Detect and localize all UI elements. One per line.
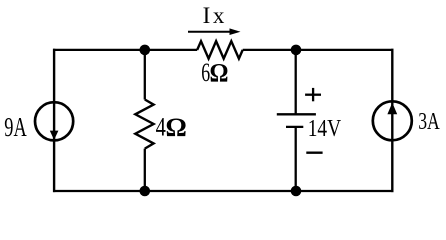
battery V1 bottom plate (short) bbox=[286, 126, 303, 128]
plus sign of battery bbox=[305, 94, 321, 96]
wire: bottom rail bbox=[53, 190, 394, 192]
svg-text:Ω: Ω bbox=[166, 112, 187, 142]
minus sign of battery bbox=[306, 152, 322, 154]
wire: right rail (through 3A source) bbox=[391, 49, 393, 192]
node B (top, junction of 6ohm / battery / 3A) bbox=[291, 45, 302, 56]
battery V1 top plate (long) bbox=[277, 113, 316, 115]
resistor R2 6ohm (horizontal zigzag on top rail) bbox=[197, 41, 243, 58]
wire: top rail left segment (corner to 6ohm) bbox=[53, 49, 197, 51]
wire: battery branch upper segment bbox=[295, 50, 297, 114]
svg-text:3A: 3A bbox=[418, 108, 440, 135]
arrowhead of 3A source (pointing up) bbox=[387, 103, 397, 115]
node C (bottom left junction) bbox=[140, 186, 151, 197]
wire: left rail (through 9A source) bbox=[53, 49, 55, 192]
svg-text:14V: 14V bbox=[308, 115, 342, 142]
arrow for Ix (pointing right) bbox=[188, 31, 233, 33]
node D (bottom right junction) bbox=[291, 186, 302, 197]
current source I1 9A (circle) bbox=[35, 102, 73, 140]
svg-text:9A: 9A bbox=[4, 112, 27, 142]
arrowhead of 9A source (pointing down) bbox=[50, 131, 59, 140]
svg-text:Ix: Ix bbox=[203, 3, 227, 28]
wire: battery branch lower segment bbox=[295, 127, 297, 191]
node A (top, junction of left source / 4ohm / 6ohm) bbox=[140, 45, 151, 56]
wire: top rail right segment (6ohm to corner) bbox=[243, 49, 394, 51]
current source I2 3A (circle) bbox=[373, 101, 412, 140]
resistor R1 4ohm (vertical zigzag) bbox=[135, 100, 153, 149]
wire: middle branch upper segment bbox=[144, 50, 146, 100]
svg-text:Ω: Ω bbox=[210, 59, 229, 88]
wire: middle branch lower segment bbox=[144, 149, 146, 191]
svg-text:4: 4 bbox=[156, 111, 166, 141]
